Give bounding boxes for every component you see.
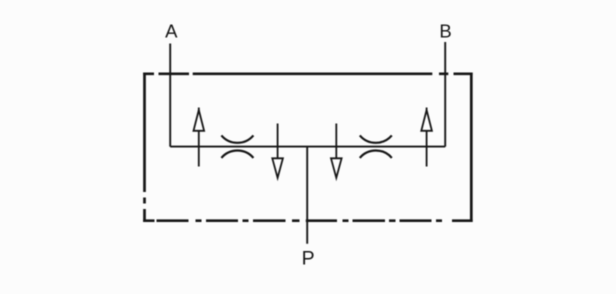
wire: port P vertical line bbox=[306, 147, 308, 244]
orifice restrictor (left) bbox=[221, 135, 253, 158]
wire: port A vertical line bbox=[169, 44, 171, 147]
flow arrow down (left of P) bbox=[272, 124, 283, 178]
enclosure dash-dot border: top edge bbox=[143, 72, 472, 75]
wire: main horizontal gallery bbox=[170, 146, 445, 148]
svg-text:P: P bbox=[302, 247, 315, 269]
enclosure dash-dot border: bottom edge bbox=[143, 219, 472, 222]
orifice restrictor (right) bbox=[360, 135, 392, 158]
flow arrow down (right of P) bbox=[331, 124, 342, 178]
wire: port B vertical line bbox=[444, 42, 446, 147]
enclosure border: right edge bbox=[470, 73, 473, 223]
enclosure dash-dot border: left edge bbox=[143, 73, 146, 223]
svg-text:B: B bbox=[439, 20, 451, 41]
flow arrow up (left, to port A) bbox=[194, 108, 205, 167]
svg-text:A: A bbox=[165, 20, 178, 41]
flow arrow up (right, to port B) bbox=[421, 108, 432, 167]
